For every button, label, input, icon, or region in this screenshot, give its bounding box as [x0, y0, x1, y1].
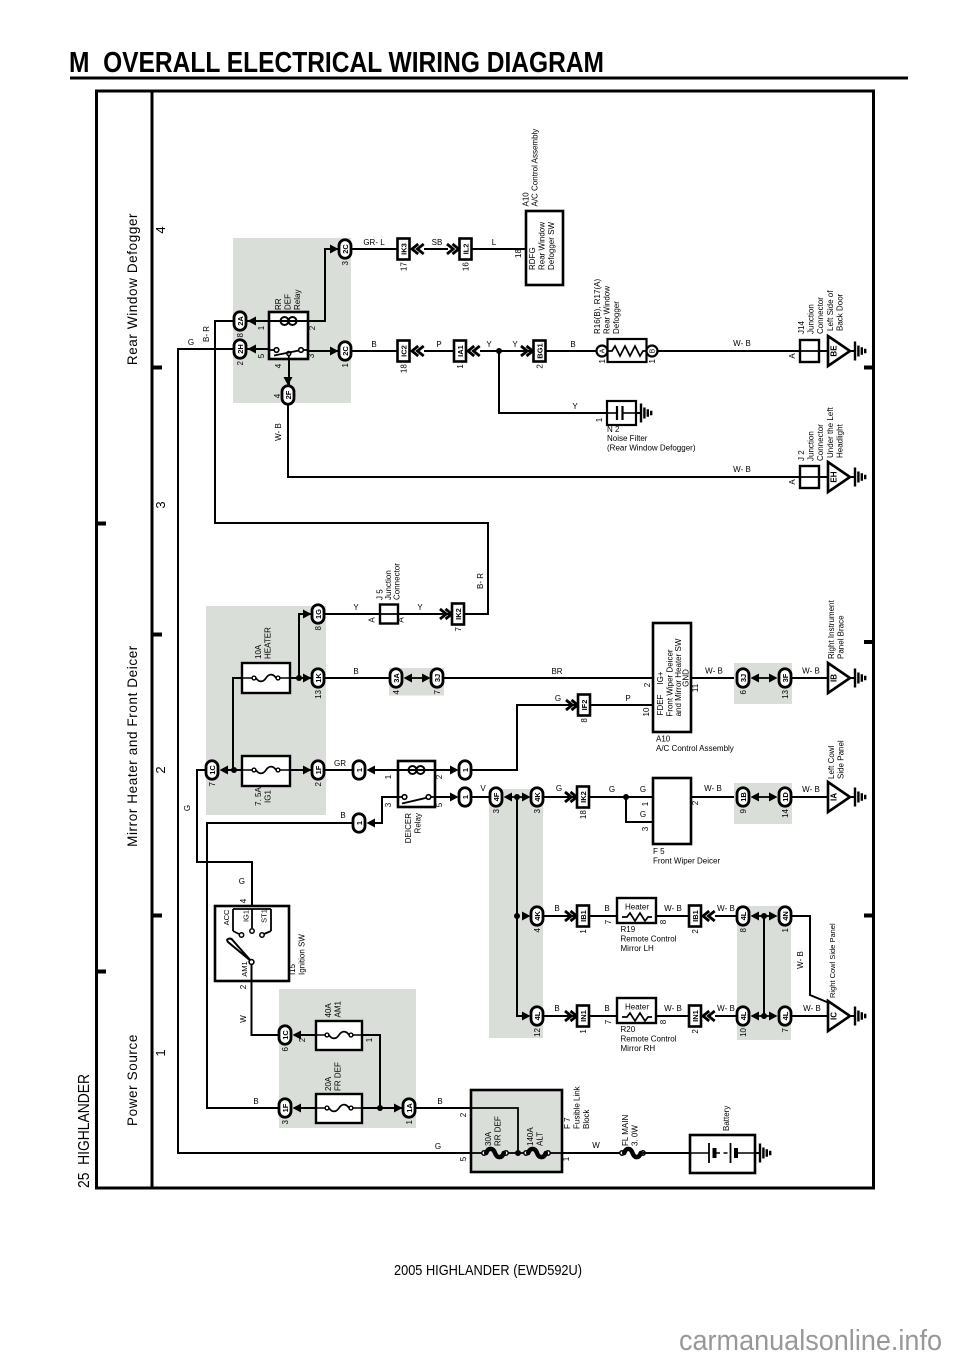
arrow into 2C top [330, 245, 339, 254]
tick outer label B/C [96, 970, 106, 974]
arrow into 1F pin2 [303, 766, 312, 775]
svg-text:A10: A10 [656, 735, 671, 744]
svg-text:3J: 3J [433, 674, 442, 682]
svg-text:Defogger SW: Defogger SW [547, 222, 556, 270]
wire A10 pin11 to 3J [691, 677, 737, 679]
connector 1F pin3 [279, 1099, 291, 1118]
svg-text:1: 1 [384, 774, 393, 779]
svg-text:4: 4 [392, 689, 401, 694]
connector 1F pin2 [312, 761, 324, 780]
svg-text:1: 1 [405, 1119, 414, 1124]
gray area RR DEF relay [233, 238, 351, 403]
svg-text:3J: 3J [739, 674, 748, 682]
svg-text:HEATER: HEATER [264, 627, 273, 659]
wire relay pin3 to 2C [308, 350, 338, 352]
junction code IL2 [460, 239, 472, 260]
gray area 3J-3F [734, 663, 792, 704]
svg-text:Mirror LH: Mirror LH [621, 944, 655, 953]
svg-text:Remote Control: Remote Control [621, 935, 677, 944]
svg-text:Rear Window: Rear Window [603, 286, 612, 334]
connector 2C bottom [339, 342, 351, 361]
relay RR DEF coil [269, 320, 308, 322]
svg-text:IN1: IN1 [691, 1010, 700, 1022]
svg-text:8: 8 [659, 919, 668, 924]
svg-text:Connector: Connector [816, 424, 825, 461]
tick inner 3/2 [152, 633, 162, 637]
arrow into 4K pin4 [522, 912, 531, 921]
svg-text:8: 8 [659, 1019, 668, 1024]
svg-text:4: 4 [153, 226, 168, 233]
wire 1D to IA [792, 796, 828, 798]
ground triangle IA [828, 782, 850, 812]
svg-text:Y: Y [486, 340, 492, 349]
svg-text:4L: 4L [533, 1011, 542, 1020]
svg-text:2: 2 [459, 1112, 468, 1117]
svg-text:R19: R19 [621, 925, 636, 934]
svg-text:7: 7 [208, 781, 217, 786]
svg-text:A: A [788, 479, 797, 485]
svg-text:B: B [371, 340, 376, 349]
svg-text:carmanualsonline.info: carmanualsonline.info [679, 1325, 942, 1357]
wire 40A to junction [362, 1035, 380, 1108]
svg-text:4N: 4N [781, 911, 790, 921]
svg-text:W- B: W- B [664, 1004, 682, 1013]
svg-text:4L: 4L [739, 911, 748, 920]
node F5 branch [623, 794, 629, 800]
svg-text:Panel Brace: Panel Brace [837, 615, 846, 659]
node junction Y [496, 348, 502, 354]
svg-text:R20: R20 [621, 1025, 636, 1034]
svg-text:V: V [480, 784, 486, 793]
arrow into 4N [769, 912, 778, 921]
wire 4L10 to 4L7 [757, 1015, 771, 1017]
svg-text:B: B [604, 1004, 609, 1013]
chevrons right IF2 [566, 700, 578, 710]
node heater fuse branch [296, 675, 302, 681]
svg-text:3: 3 [153, 501, 168, 508]
wire G from 2H to F7 pin 5 [178, 349, 471, 1153]
chevrons right BG1 [521, 346, 533, 356]
wire IK3 to IL2 [424, 248, 448, 250]
arrow into 1 (B) [367, 819, 376, 828]
svg-text:SB: SB [432, 238, 443, 247]
A/C control assembly A10 (top) box [526, 211, 563, 285]
svg-text:2: 2 [153, 766, 168, 773]
relay RR DEF box [269, 312, 308, 359]
vertical wire 4K column [517, 797, 523, 1016]
wire 4K4 to IB1 [544, 915, 577, 917]
svg-text:B: B [604, 904, 609, 913]
defogger terminal A [597, 346, 608, 357]
arrow into 4L pin7 [769, 1012, 778, 1021]
svg-text:BG1: BG1 [536, 343, 545, 358]
svg-text:5: 5 [257, 353, 266, 358]
svg-text:A/C Control Assembly: A/C Control Assembly [656, 744, 734, 753]
svg-text:2F: 2F [284, 390, 293, 399]
svg-text:1: 1 [648, 358, 657, 363]
svg-text:3A: 3A [392, 673, 401, 683]
fusible link block F7 box [471, 1090, 562, 1172]
connector 2C top [339, 240, 351, 259]
svg-text:1: 1 [355, 821, 364, 825]
svg-text:2005 HIGHLANDER (EWD592U): 2005 HIGHLANDER (EWD592U) [394, 1262, 582, 1279]
svg-text:25 HIGHLANDER: 25 HIGHLANDER [76, 1074, 93, 1188]
connector 1 (pin2) [459, 761, 471, 780]
svg-text:IC: IC [830, 1012, 839, 1020]
svg-text:F 5: F 5 [653, 847, 665, 856]
fusible link 140A ALT [524, 1151, 528, 1155]
arrow into 1 (pin5) [450, 793, 459, 802]
svg-text:2: 2 [435, 774, 444, 779]
fuse 10A HEATER box [242, 663, 290, 693]
svg-text:Under the Left: Under the Left [826, 407, 835, 458]
junction code IB1 pin1 [577, 906, 589, 927]
svg-text:6: 6 [281, 1046, 290, 1051]
noise filter capacitor [607, 412, 617, 414]
svg-text:140A: 140A [526, 1127, 535, 1146]
wire 20A to 1A [362, 1107, 402, 1109]
ground symbol IB [850, 677, 855, 679]
svg-text:1: 1 [355, 768, 364, 772]
svg-text:Y: Y [417, 603, 423, 612]
svg-text:2: 2 [643, 682, 652, 687]
svg-text:Power Source: Power Source [125, 1034, 140, 1126]
arrow into 4K pin3 [522, 793, 531, 802]
svg-text:2: 2 [239, 984, 248, 989]
svg-text:Y: Y [353, 603, 359, 612]
svg-text:1: 1 [641, 801, 650, 806]
svg-text:GR- L: GR- L [363, 238, 385, 247]
arrow into 1A [394, 1104, 403, 1113]
svg-text:IG1: IG1 [264, 790, 273, 803]
defogger terminal B [647, 346, 658, 357]
svg-text:10: 10 [739, 1027, 748, 1036]
svg-text:A: A [397, 617, 406, 623]
wire deicer pin3 to B oval [373, 797, 398, 823]
svg-text:1C: 1C [281, 1030, 290, 1040]
fusible link FL MAIN [620, 1151, 624, 1155]
connector 4K pin4 [531, 907, 543, 926]
title underline [70, 77, 908, 80]
svg-text:13: 13 [314, 689, 323, 698]
svg-text:A10: A10 [522, 192, 531, 207]
front wiper deicer F5 box [653, 778, 691, 844]
svg-text:5: 5 [459, 1156, 468, 1161]
rear window defogger R16/R17 box [608, 339, 647, 362]
ignition switch I15 box [215, 906, 289, 981]
wire 1C6 to 40A fuse [299, 1034, 316, 1036]
ground symbol EH [850, 476, 855, 478]
relay DEICER coil [398, 769, 435, 771]
mirror heater LH R19 box [617, 898, 656, 923]
junction code IF2 [578, 695, 590, 716]
connector 1 (pin5) [459, 788, 471, 807]
svg-text:7: 7 [454, 626, 463, 631]
svg-text:3F: 3F [781, 673, 790, 682]
svg-text:5: 5 [435, 802, 444, 807]
svg-text:2C: 2C [341, 346, 350, 356]
svg-text:2: 2 [314, 781, 323, 786]
wire R20 to IN1-2 [656, 1015, 689, 1017]
noise filter N2 box [607, 401, 636, 425]
svg-text:IB: IB [830, 674, 839, 682]
svg-text:Heater: Heater [625, 1003, 649, 1012]
svg-text:1: 1 [562, 1156, 571, 1161]
svg-text:Noise Filter: Noise Filter [607, 434, 648, 443]
wire J2 to EH [819, 476, 828, 478]
ground symbol BE [850, 350, 855, 352]
svg-text:2: 2 [691, 1029, 700, 1034]
wire IK2 to F5 pin1 [589, 796, 653, 798]
arrow into 1F pin3 [293, 1104, 302, 1113]
connector 4L pin8 [737, 907, 749, 926]
tick right 3/2 [864, 640, 874, 644]
svg-text:10A: 10A [254, 644, 263, 659]
ground triangle IC [828, 1001, 850, 1031]
svg-text:4: 4 [273, 393, 282, 398]
node 4L10 junction [761, 1013, 767, 1019]
svg-text:G: G [640, 810, 646, 819]
svg-text:4K: 4K [533, 792, 542, 802]
wire ignition AM1 to 1C pin6 [252, 964, 279, 1035]
fuse 10A HEATER element [242, 677, 290, 679]
ground symbol battery [755, 1152, 760, 1154]
svg-text:30A: 30A [484, 1131, 493, 1146]
wire IF2 to A10 pin10 [590, 704, 653, 706]
svg-text:IB1: IB1 [691, 910, 700, 922]
arrow into 1C pin7 [220, 766, 229, 775]
svg-text:AM1: AM1 [240, 961, 249, 976]
wire 1K to 3A [325, 677, 390, 679]
svg-text:G: G [555, 694, 561, 703]
svg-text:6: 6 [739, 689, 748, 694]
svg-text:1: 1 [579, 1029, 588, 1034]
svg-text:IF2: IF2 [580, 700, 589, 711]
svg-text:FDEF: FDEF [656, 694, 665, 715]
svg-text:1: 1 [456, 364, 465, 369]
wire relay pin2 to 2C [308, 249, 338, 321]
wire 4L12 to IN1 [544, 1015, 577, 1017]
node fuse-G junction [231, 767, 237, 773]
svg-text:A: A [600, 348, 607, 353]
svg-text:1K: 1K [314, 673, 323, 683]
svg-text:W- B: W- B [717, 1004, 735, 1013]
wire deicer pin2 out [435, 769, 452, 771]
svg-text:20A: 20A [324, 1076, 333, 1091]
svg-text:3: 3 [384, 802, 393, 807]
svg-text:4: 4 [533, 927, 542, 932]
arrow into 4L pin8 [751, 912, 760, 921]
svg-text:W- B: W- B [802, 667, 820, 676]
svg-text:G: G [435, 1142, 441, 1151]
heater RH resistor [622, 1013, 652, 1021]
svg-text:Rear Window: Rear Window [538, 222, 547, 270]
node 4F-4K junction [514, 794, 520, 800]
wire Y to noise filter [499, 351, 607, 413]
connector 2H [234, 340, 246, 359]
svg-text:7. 5A: 7. 5A [254, 787, 263, 806]
svg-text:Fusible Link: Fusible Link [573, 1085, 582, 1129]
arrow into 3J pin6 [751, 674, 760, 683]
wire 4L8 to 4N [757, 915, 771, 917]
svg-text:10: 10 [642, 707, 651, 716]
chevrons left IN1-2 [703, 1011, 715, 1021]
wire oval to deicer pin1 [373, 769, 398, 771]
svg-text:F 7: F 7 [563, 1117, 572, 1129]
wire deicer pin2 to IF2 [472, 705, 578, 770]
svg-text:A/C Control Assembly: A/C Control Assembly [531, 129, 540, 207]
svg-text:RR DEF: RR DEF [494, 1116, 503, 1146]
arrow into 3A [404, 674, 413, 683]
svg-text:Heater: Heater [625, 903, 649, 912]
wire 4L7 to IC [792, 1015, 828, 1017]
battery box [690, 1135, 755, 1173]
wire IA1 to BG1 [480, 350, 533, 352]
junction code IK2 pin18 [577, 787, 589, 808]
wire 2A to relay pin1 [246, 320, 269, 322]
svg-text:BE: BE [830, 345, 839, 357]
svg-text:B: B [353, 667, 358, 676]
wire IL2 to A10 [472, 248, 526, 250]
gray area fuse block [206, 606, 326, 815]
svg-text:1F: 1F [281, 1103, 290, 1112]
wire dot to fuse [226, 769, 242, 771]
node 40A-20A junction [377, 1105, 383, 1111]
ground triangle EH [828, 462, 850, 492]
chevrons right IB1-1 [565, 911, 577, 921]
wire IN1 to heater RH [589, 1015, 617, 1017]
wire deicer pin5 out [435, 796, 452, 798]
connector 1D [779, 788, 791, 807]
connector 4L pin7 [779, 1007, 791, 1026]
connector 3J pin6 [737, 669, 749, 688]
svg-text:ST1: ST1 [260, 909, 269, 923]
svg-text:(Rear Window Defogger): (Rear Window Defogger) [607, 444, 696, 453]
svg-text:Connector: Connector [816, 297, 825, 334]
svg-text:14: 14 [781, 808, 790, 817]
svg-text:4K: 4K [533, 911, 542, 921]
svg-text:4L: 4L [781, 1011, 790, 1020]
svg-text:2: 2 [691, 800, 700, 805]
svg-text:P: P [625, 694, 630, 703]
svg-text:13: 13 [781, 689, 790, 698]
svg-text:2: 2 [536, 364, 545, 369]
svg-text:G: G [556, 784, 562, 793]
wire 4F to 4K with junction [510, 796, 524, 798]
ground symbol N2 [636, 412, 641, 414]
wire 10A right to 1K [290, 677, 311, 679]
connector 1 (B) [353, 814, 365, 833]
wire 3F to IB [792, 677, 828, 679]
inner frame line [151, 91, 154, 1188]
svg-text:Y: Y [572, 402, 578, 411]
relay DEICER box [398, 761, 435, 807]
wire 1F3 to 20A fuse [299, 1107, 316, 1109]
svg-text:B: B [650, 348, 657, 353]
fuse 40A AM1 box [316, 1021, 362, 1050]
wire FL MAIN to battery [643, 1152, 690, 1154]
tick right 4/3 [864, 366, 874, 370]
svg-text:4: 4 [239, 898, 248, 903]
wire fuse to 1F [290, 769, 311, 771]
A/C control assembly A10 (mid) box [653, 623, 691, 732]
gray area power fuses [279, 989, 416, 1128]
junction code IN1 pin1 [577, 1006, 589, 1027]
wire F7 pin1 to FL MAIN [562, 1152, 620, 1154]
wire 2H to relay pin5 [246, 348, 269, 350]
connector 1A [403, 1099, 415, 1118]
wire 4K3 to IK2-18 [544, 796, 577, 798]
wire 3A to 3J [410, 677, 424, 679]
svg-text:W- B: W- B [274, 423, 283, 441]
svg-text:11: 11 [691, 683, 700, 692]
arrow into 2H [248, 345, 257, 354]
svg-text:Junction: Junction [807, 431, 816, 461]
svg-text:DEICER: DEICER [404, 813, 413, 843]
svg-text:G: G [640, 785, 646, 794]
arrow into 3F [769, 674, 778, 683]
svg-text:1: 1 [598, 358, 607, 363]
svg-text:1A: 1A [405, 1103, 414, 1113]
relay RR DEF switch [274, 348, 279, 353]
svg-text:Relay: Relay [293, 290, 302, 310]
arrow into 2C bottom [330, 347, 339, 356]
heater LH resistor [622, 913, 652, 921]
tick inner 4/3 [152, 366, 162, 370]
arrow into 4L pin12 [522, 1012, 531, 1021]
wire IN1-2 to 4L10 [715, 1015, 737, 1017]
svg-text:B: B [554, 904, 559, 913]
svg-text:W- B: W- B [796, 951, 805, 969]
svg-text:IG+: IG+ [656, 671, 665, 684]
svg-text:Left Cowl: Left Cowl [827, 745, 836, 779]
svg-text:B- R: B- R [476, 573, 485, 589]
tick outer label A/B [96, 522, 106, 526]
junction code IK3 [398, 239, 410, 260]
svg-text:1: 1 [781, 927, 790, 932]
wire relay pin4 to 2F [288, 359, 290, 385]
svg-text:3: 3 [492, 808, 501, 813]
svg-text:BR: BR [551, 667, 562, 676]
svg-text:Right Cowl Side Panel: Right Cowl Side Panel [828, 923, 837, 998]
svg-text:W- B: W- B [717, 904, 735, 913]
svg-text:W- B: W- B [733, 465, 751, 474]
svg-text:M OVERALL ELECTRICAL WIRING D: M OVERALL ELECTRICAL WIRING DIAGRAM [69, 47, 604, 79]
chevrons right IK2-18 [565, 792, 577, 802]
svg-text:Junction: Junction [807, 304, 816, 334]
node F7 junction [515, 1150, 521, 1156]
svg-text:R16(B), R17(A): R16(B), R17(A) [593, 279, 602, 334]
ignition pin4 wire G [251, 862, 253, 906]
connector 2A [234, 312, 246, 331]
chevrons left IC2 [412, 346, 424, 356]
node 4K pin4 junction [514, 913, 520, 919]
wire B-R from 2A to IK2 pin 7 [215, 321, 488, 614]
svg-text:Connector: Connector [393, 563, 402, 600]
svg-text:P: P [436, 340, 441, 349]
arrow into 2A [248, 317, 257, 326]
fuse 20A FR DEF box [316, 1094, 362, 1123]
svg-text:1: 1 [595, 417, 604, 422]
arrow into 3J [422, 674, 431, 683]
svg-text:7: 7 [604, 919, 613, 924]
gray area 1B-1D [734, 783, 792, 824]
svg-text:3: 3 [533, 808, 542, 813]
svg-text:8: 8 [739, 927, 748, 932]
defogger resistor zigzag [608, 346, 646, 356]
svg-text:1F: 1F [314, 765, 323, 774]
svg-text:2: 2 [236, 360, 245, 365]
